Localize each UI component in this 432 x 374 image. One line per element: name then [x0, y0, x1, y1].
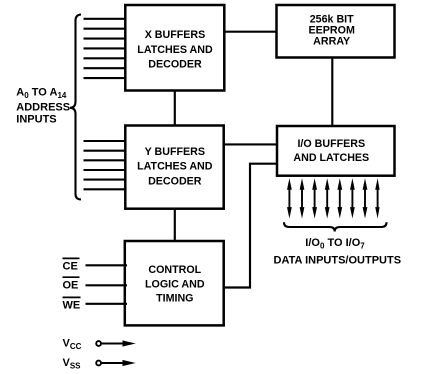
svg-text:AND LATCHES: AND LATCHES: [293, 152, 369, 164]
I/O arrow 4: [325, 178, 330, 218]
svg-text:ADDRESS: ADDRESS: [16, 102, 70, 114]
I/O arrow 7: [363, 178, 368, 218]
wire OE: [86, 284, 128, 286]
VSS arrow: [101, 362, 126, 364]
I/O arrow 2: [300, 178, 305, 218]
wire X buffers to Y buffers: [174, 89, 176, 127]
svg-text:Y BUFFERS: Y BUFFERS: [145, 146, 205, 158]
svg-text:DATA INPUTS/OUTPUTS: DATA INPUTS/OUTPUTS: [274, 255, 402, 267]
VCC arrow: [101, 342, 126, 344]
address line X2: [84, 28, 128, 30]
svg-text:LATCHES AND: LATCHES AND: [137, 161, 213, 173]
svg-text:I/O0 TO I/O7: I/O0 TO I/O7: [305, 237, 365, 251]
svg-text:INPUTS: INPUTS: [16, 114, 56, 126]
I/O arrow 8: [375, 178, 379, 218]
address line X7: [84, 77, 128, 79]
brace address inputs: [70, 15, 81, 200]
svg-text:CONTROL: CONTROL: [148, 264, 201, 276]
address line X6: [84, 67, 128, 69]
brace data I/O: [284, 222, 387, 231]
svg-text:DECODER: DECODER: [148, 175, 202, 187]
address line Y2: [84, 150, 128, 152]
svg-text:LATCHES AND: LATCHES AND: [137, 44, 213, 56]
svg-text:LOGIC AND: LOGIC AND: [145, 278, 205, 290]
svg-text:DECODER: DECODER: [148, 59, 202, 71]
svg-text:I/O BUFFERS: I/O BUFFERS: [297, 138, 365, 150]
wire EEPROM array to I/O buffers: [331, 56, 333, 127]
VSS pin circle: [96, 361, 101, 366]
wire Y buffers to control logic: [174, 207, 176, 242]
address line X5: [84, 57, 128, 59]
block X buffers latches and decoder: [125, 5, 224, 91]
I/O arrow 1: [287, 178, 292, 218]
wire Y buffers to I/O buffers: [222, 143, 278, 145]
address line Y6: [84, 188, 128, 190]
address line Y5: [84, 179, 128, 181]
wire CE: [86, 264, 128, 266]
address line Y4: [84, 169, 128, 171]
svg-text:OE: OE: [63, 280, 79, 292]
wire control logic to I/O buffers: [223, 164, 278, 288]
svg-text:CE: CE: [63, 261, 78, 273]
svg-text:TIMING: TIMING: [156, 293, 193, 305]
block control logic and timing: [125, 241, 224, 325]
block Y buffers latches and decoder: [125, 126, 223, 209]
address line X4: [84, 47, 128, 49]
address line Y1: [84, 140, 128, 142]
address line X3: [84, 38, 128, 40]
address line X1: [84, 18, 128, 20]
I/O arrow 3: [312, 178, 317, 218]
I/O arrow 6: [350, 178, 355, 218]
block 256k bit EEPROM array: [277, 5, 395, 58]
wire X buffers to EEPROM array: [223, 31, 278, 33]
block I/O buffers and latches: [277, 126, 395, 176]
svg-text:WE: WE: [63, 299, 81, 311]
I/O arrow 5: [337, 178, 342, 218]
address line Y3: [84, 159, 128, 161]
wire WE: [86, 303, 128, 305]
VCC pin circle: [96, 341, 101, 346]
svg-text:ARRAY: ARRAY: [313, 36, 350, 48]
svg-text:X BUFFERS: X BUFFERS: [145, 29, 206, 41]
